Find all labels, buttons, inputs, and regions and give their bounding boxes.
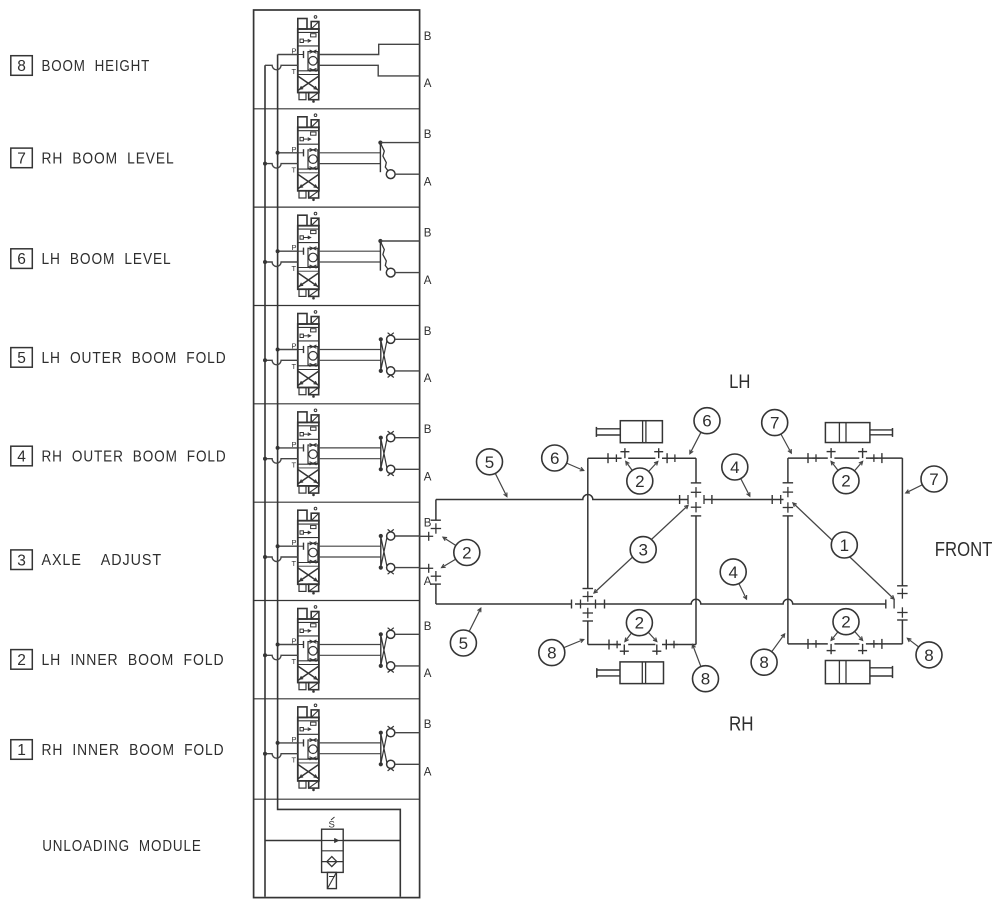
svg-text:5: 5 — [17, 350, 26, 367]
LH boom cylinder port bottom left — [620, 645, 629, 655]
svg-text:FRONT: FRONT — [935, 538, 993, 561]
wire row 3 A stub to boom — [420, 564, 434, 573]
svg-text:T: T — [292, 362, 297, 371]
cylinder LH outer fold (top) — [596, 421, 662, 443]
port label A row 4 — [424, 472, 432, 484]
svg-text:8: 8 — [17, 58, 26, 75]
pipe top boom supply middle segment — [704, 499, 784, 501]
junction bottom pipe end at RH right edge — [886, 600, 894, 609]
svg-text:B: B — [424, 424, 432, 436]
svg-text:B: B — [424, 518, 432, 530]
svg-text:2: 2 — [462, 544, 471, 563]
pipe bottom boom supply — [436, 599, 886, 604]
svg-text:2: 2 — [17, 652, 26, 669]
balloon 8 LH bottom left — [539, 639, 584, 665]
wire P feed row 7 — [276, 151, 298, 155]
balloon 2 LH top — [626, 462, 658, 495]
wire row 3 B stub to boom — [420, 532, 434, 541]
svg-text:UNLOADING MODULE: UNLOADING MODULE — [42, 838, 202, 855]
port label A row 6 — [424, 275, 432, 287]
svg-text:B: B — [424, 621, 432, 633]
label row 8 BOOM HEIGHT — [11, 56, 150, 76]
svg-text:RH INNER BOOM FOLD: RH INNER BOOM FOLD — [42, 742, 225, 759]
section divider line 2 — [254, 206, 420, 208]
port label A row 7 — [424, 176, 432, 188]
svg-text:7: 7 — [770, 414, 779, 433]
unloading valve flow arrow — [322, 838, 344, 843]
svg-text:T: T — [292, 559, 297, 568]
axle frame left edge lower — [431, 584, 441, 604]
LH boom frame right edge — [691, 458, 701, 644]
svg-text:B: B — [424, 129, 432, 141]
double check valve assembly row 1 — [319, 726, 420, 771]
section divider line 7 — [254, 698, 420, 700]
wire T feed row 2 — [263, 653, 298, 660]
LH boom frame left edge — [583, 458, 594, 644]
svg-text:T: T — [292, 461, 297, 470]
svg-text:7: 7 — [17, 151, 26, 168]
junction top pipe end at RH left edge — [772, 495, 781, 504]
svg-text:T: T — [292, 67, 297, 76]
valve section 8 directional control valve — [292, 16, 319, 103]
svg-text:A: A — [424, 767, 432, 779]
svg-text:A: A — [424, 176, 432, 188]
wire T feed row 3 — [263, 555, 298, 562]
junction bottom pipe at LH left edge — [572, 600, 605, 609]
balloon 2 axle hoses — [442, 537, 480, 567]
RH boom frame top edge — [788, 453, 903, 463]
label row 2 LH INNER BOOM FOLD — [11, 650, 225, 670]
balloon 6 top — [690, 408, 720, 454]
svg-text:T: T — [292, 657, 297, 666]
svg-text:RH BOOM LEVEL: RH BOOM LEVEL — [42, 150, 175, 167]
svg-text:8: 8 — [701, 670, 710, 689]
LH boom cylinder port bottom right — [652, 645, 661, 655]
svg-text:4: 4 — [728, 563, 737, 582]
port label B row 1 — [424, 719, 432, 731]
balloon 3 axle adjust line — [594, 505, 688, 593]
wire row 8 port A — [319, 65, 420, 76]
balloon 4 top — [722, 454, 750, 496]
label row 7 RH BOOM LEVEL — [11, 148, 175, 168]
axle frame coupler B — [431, 523, 441, 533]
section divider line 1 — [254, 108, 420, 110]
RH boom cylinder port bottom left — [827, 644, 836, 654]
wire row 8 port B — [319, 44, 420, 54]
svg-text:T: T — [292, 756, 297, 765]
svg-text:T: T — [292, 264, 297, 273]
wire T return rail — [264, 65, 266, 897]
RH boom cylinder port bottom right — [858, 644, 867, 654]
svg-text:LH BOOM LEVEL: LH BOOM LEVEL — [42, 251, 172, 268]
balloon 8 RH bottom left — [751, 634, 785, 675]
port label A row 3 — [424, 576, 432, 588]
balloon 8 RH bottom right — [907, 638, 942, 668]
junction top pipe at LH right edge — [680, 495, 712, 504]
svg-text:RH OUTER BOOM FOLD: RH OUTER BOOM FOLD — [42, 448, 227, 465]
manifold enclosure box — [254, 10, 420, 898]
label UNLOADING MODULE — [42, 838, 202, 855]
RH boom frame bottom edge — [788, 639, 903, 649]
axle frame coupler A — [431, 571, 441, 581]
port label B row 5 — [424, 326, 432, 338]
label row 1 RH INNER BOOM FOLD — [11, 740, 225, 760]
wire T feed row 1 — [263, 752, 298, 759]
balloon 5 top — [477, 449, 507, 497]
valve section 1 directional control valve — [292, 704, 319, 791]
balloon 4 bottom — [720, 559, 746, 599]
svg-text:4: 4 — [17, 449, 26, 466]
section divider line 4 — [254, 403, 420, 405]
wire P feed row 1 — [276, 741, 298, 745]
port label B row 3 — [424, 518, 432, 530]
svg-text:B: B — [424, 326, 432, 338]
balloon 7 right — [906, 466, 947, 493]
label row 6 LH BOOM LEVEL — [11, 249, 172, 269]
wire T feed row 4 — [263, 457, 298, 464]
port label B row 4 — [424, 424, 432, 436]
valve section 3 directional control valve — [292, 507, 319, 594]
wire T feed row 8 — [265, 65, 298, 70]
svg-text:1: 1 — [17, 742, 26, 759]
wire T feed row 7 — [263, 162, 298, 169]
svg-text:8: 8 — [547, 644, 556, 663]
svg-text:3: 3 — [638, 541, 647, 560]
svg-text:5: 5 — [459, 634, 468, 653]
cylinder RH inner fold (bottom) — [825, 661, 892, 684]
wire T feed row 6 — [263, 260, 298, 267]
svg-text:B: B — [424, 228, 432, 240]
svg-text:S: S — [329, 820, 335, 831]
balloon 1 boom fold line — [793, 503, 894, 599]
svg-text:5: 5 — [485, 453, 494, 472]
svg-text:BOOM HEIGHT: BOOM HEIGHT — [42, 58, 151, 75]
svg-text:B: B — [424, 719, 432, 731]
double check valve assembly row 5 — [319, 333, 420, 378]
balloon 8 LH bottom right — [692, 645, 718, 692]
check valve assembly row 6 — [319, 239, 420, 277]
svg-text:RH: RH — [729, 714, 754, 736]
LH boom cylinder port top left — [620, 448, 629, 458]
double check valve assembly row 2 — [319, 628, 420, 673]
port label B row 8 — [424, 31, 432, 43]
svg-text:LH: LH — [729, 372, 750, 393]
svg-text:2: 2 — [635, 614, 644, 633]
svg-text:8: 8 — [759, 653, 768, 672]
svg-text:6: 6 — [550, 449, 559, 468]
label row 3 AXLE ADJUST — [11, 550, 162, 570]
cylinder LH inner fold (bottom) — [597, 662, 664, 684]
balloon 6 left — [542, 445, 584, 471]
svg-text:B: B — [424, 31, 432, 43]
port label A row 8 — [424, 78, 432, 90]
RH boom cylinder port top right — [858, 448, 867, 458]
valve section 4 directional control valve — [292, 409, 319, 496]
wire P feed row 2 — [276, 643, 298, 647]
svg-text:A: A — [424, 576, 432, 588]
svg-text:6: 6 — [702, 412, 711, 431]
port label B row 7 — [424, 129, 432, 141]
wire P feed row 3 — [276, 544, 298, 548]
RH boom cylinder port top left — [827, 448, 836, 458]
svg-text:2: 2 — [841, 472, 850, 491]
valve section 5 directional control valve — [292, 311, 319, 398]
section divider line 3 — [254, 305, 420, 307]
text RH — [729, 714, 754, 736]
svg-text:1: 1 — [840, 536, 849, 555]
LH boom cylinder port top right — [654, 448, 663, 458]
check valve assembly row 7 — [319, 141, 420, 179]
wire T line through unloading valve — [265, 840, 400, 842]
wire P feed row 8 — [278, 54, 298, 56]
double check valve assembly row 4 — [319, 431, 420, 476]
text LH — [729, 372, 750, 393]
svg-text:4: 4 — [730, 458, 739, 477]
balloon 2 RH top — [831, 461, 863, 493]
wire P feed row 5 — [276, 348, 298, 352]
RH boom frame left edge — [783, 458, 794, 644]
svg-text:7: 7 — [929, 470, 938, 489]
LH boom frame bottom edge — [588, 640, 696, 650]
port label A row 2 — [424, 668, 432, 680]
label row 5 LH OUTER BOOM FOLD — [11, 348, 227, 368]
wire P feed row 4 — [276, 446, 298, 450]
section divider line 6 — [254, 600, 420, 602]
axle frame left edge upper — [431, 500, 441, 521]
port label A row 5 — [424, 373, 432, 385]
svg-text:A: A — [424, 78, 432, 90]
balloon 2 RH bottom — [831, 609, 863, 641]
cylinder RH outer fold (top) — [825, 423, 892, 443]
svg-text:A: A — [424, 373, 432, 385]
RH boom frame right edge — [897, 458, 908, 644]
valve section 6 directional control valve — [292, 212, 319, 299]
balloon 2 LH bottom — [625, 610, 657, 642]
svg-text:2: 2 — [841, 613, 850, 632]
valve section 2 directional control valve — [292, 606, 319, 693]
unloading valve check — [322, 857, 344, 867]
svg-text:A: A — [424, 668, 432, 680]
svg-text:LH OUTER BOOM FOLD: LH OUTER BOOM FOLD — [42, 350, 227, 367]
unloading valve solenoid — [327, 872, 336, 888]
port label B row 6 — [424, 228, 432, 240]
label row 4 RH OUTER BOOM FOLD — [11, 446, 227, 466]
LH boom frame top edge — [588, 453, 696, 463]
svg-text:LH INNER BOOM FOLD: LH INNER BOOM FOLD — [42, 652, 225, 669]
svg-text:3: 3 — [17, 552, 26, 569]
svg-text:T: T — [292, 165, 297, 174]
unloading valve body — [322, 829, 344, 872]
svg-text:AXLE ADJUST: AXLE ADJUST — [42, 552, 163, 569]
section divider line 5 — [254, 501, 420, 503]
unloading valve S label — [329, 817, 335, 831]
svg-text:A: A — [424, 275, 432, 287]
wire P feed row 6 — [276, 249, 298, 253]
unloading module section divider — [254, 798, 420, 800]
wire T feed row 5 — [263, 358, 298, 365]
svg-text:2: 2 — [635, 472, 644, 491]
wire P supply rail — [278, 55, 401, 897]
svg-text:A: A — [424, 472, 432, 484]
pipe top boom supply left segment — [436, 495, 688, 500]
port label B row 2 — [424, 621, 432, 633]
balloon 5 bottom — [450, 608, 480, 656]
svg-text:8: 8 — [924, 646, 933, 665]
text FRONT — [935, 538, 993, 561]
port label A row 1 — [424, 767, 432, 779]
svg-text:6: 6 — [17, 251, 26, 268]
valve section 7 directional control valve — [292, 114, 319, 201]
balloon 7 top left — [762, 410, 792, 454]
double check valve assembly row 3 — [319, 529, 420, 574]
